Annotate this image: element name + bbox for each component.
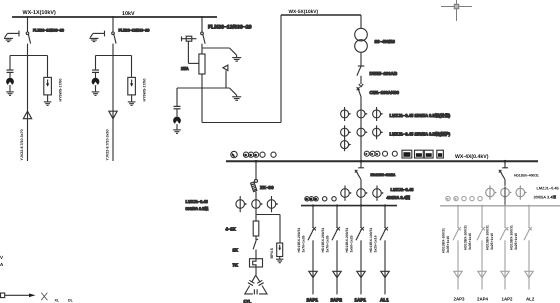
svg-text:DL: DL — [68, 298, 74, 302]
capacitor C3 tie — [174, 88, 181, 117]
legend arrow — [5, 294, 36, 298]
label arrester bay2 — [143, 79, 147, 102]
label arrester bay1 — [59, 79, 63, 102]
svg-text:2AP2: 2AP2 — [331, 298, 343, 303]
CT cap a — [236, 196, 247, 212]
wire bay1 drop from bus — [27, 17, 29, 32]
capacitor C1 coupling — [7, 70, 14, 78]
svg-text:DW15−200A/3: DW15−200A/3 — [370, 71, 398, 76]
ground bay1 counter — [6, 92, 14, 96]
CT TA1a — [341, 107, 352, 121]
legend box — [1, 293, 5, 298]
svg-text:WX-1X(10kV): WX-1X(10kV) — [23, 10, 56, 16]
drawing crosshair marker — [441, 0, 472, 21]
capacitor C2 coupling — [92, 70, 99, 78]
CT TA2c — [373, 125, 384, 139]
discharge counter tie — [173, 117, 181, 130]
junction transformer on bus WX-4X — [360, 160, 363, 163]
label QS5 HD13BX-400/31 — [371, 173, 396, 177]
ground bay2 arrester — [128, 102, 136, 106]
label grey feeder3 name — [502, 297, 514, 302]
svg-text:LMZJ1−0.45: LMZJ1−0.45 — [186, 199, 209, 204]
wire bay1 left branch — [9, 56, 11, 70]
meter PA1 — [364, 151, 369, 156]
wire delta to lower branch — [225, 71, 227, 89]
label QF1 CM1-100A/400 — [370, 90, 400, 95]
meter r4 grey — [470, 196, 474, 200]
svg-text:LMZJ1−0.45 150/5A 0.5级(保护): LMZJ1−0.45 150/5A 0.5级(保护) — [390, 131, 451, 136]
breaker QF1 — [357, 84, 364, 161]
fuse FU cap bay — [253, 221, 259, 236]
junction grey feeder 458 — [457, 205, 459, 207]
ground bay1 arrester — [44, 102, 52, 106]
label bus WX-4X — [455, 154, 489, 160]
svg-text:7K: 7K — [233, 263, 238, 268]
svg-text:3x70+1x35: 3x70+1x35 — [326, 235, 330, 252]
label T1 S9-400/10 — [375, 39, 396, 44]
wire bay1 right branch — [47, 56, 49, 78]
meter PV1 — [383, 151, 388, 156]
legend X symbol — [41, 293, 47, 301]
label capacitor bank — [244, 299, 252, 303]
sub-bus black feeder section — [301, 205, 397, 207]
legend edge mark A — [0, 255, 3, 260]
feeder 1 switch — [308, 206, 316, 295]
cable head feeder4 — [381, 271, 389, 277]
svg-text:300/5A 0.5级: 300/5A 0.5级 — [186, 206, 209, 211]
svg-text:LMZJ1−0.45 150/5A 0.5级(计量): LMZJ1−0.45 150/5A 0.5级(计量) — [390, 113, 451, 118]
surge arrester F2 — [128, 77, 136, 101]
fuse FU1 tie — [199, 54, 205, 74]
operating mechanism linkage — [182, 36, 199, 63]
label CT TA4 line2 — [387, 195, 410, 200]
label feeder2 2AP2 — [331, 298, 343, 303]
label 7K — [233, 263, 238, 268]
label grey feeder1 name — [454, 297, 466, 302]
earthing interlock bay1 — [5, 31, 19, 38]
meter f1 — [305, 197, 309, 201]
label 1RD — [226, 227, 236, 232]
svg-text:4−1K: 4−1K — [226, 227, 236, 232]
svg-text:2AP4: 2AP4 — [477, 297, 489, 302]
wire LV main drop — [360, 161, 362, 168]
svg-text:HD13BX-100/31: HD13BX-100/31 — [464, 225, 468, 250]
svg-text:HD13BX−400/31: HD13BX−400/31 — [514, 174, 539, 178]
label QS1 FLN36-12/630-20 — [33, 29, 64, 33]
label bus WX-1X — [23, 10, 56, 16]
svg-text:3x35+1x16: 3x35+1x16 — [468, 233, 472, 250]
label cable bay2 — [105, 129, 109, 160]
wire branch to arrester cap — [256, 215, 280, 244]
meter f3 — [314, 197, 318, 201]
svg-text:AL2: AL2 — [526, 297, 535, 302]
CT TA5b grey — [501, 185, 512, 199]
label CT TA4 line1 — [391, 187, 415, 192]
svg-text:3x25+1x16: 3x25+1x16 — [374, 235, 378, 252]
label feeder3 spec — [345, 228, 354, 253]
wire cap bay drop — [255, 161, 257, 179]
svg-text:HD13BX-100/31: HD13BX-100/31 — [442, 228, 446, 253]
svg-text:LMZJ1−0.45: LMZJ1−0.45 — [537, 186, 560, 191]
discharge counter bay1 — [6, 78, 14, 92]
CT TA5c grey — [516, 185, 527, 199]
bus WX-1X 10kV — [12, 16, 217, 18]
cable head feeder1 — [309, 271, 317, 277]
svg-text:3x35+1x16: 3x35+1x16 — [446, 236, 450, 253]
cable head bay2 (down) — [109, 111, 117, 119]
svg-text:2AP1: 2AP1 — [307, 298, 319, 303]
svg-text:YJV22-8.7/10-3x50: YJV22-8.7/10-3x50 — [105, 129, 109, 160]
ground bay2 interlock — [90, 38, 99, 41]
label QS4 DW15-200A/3 — [370, 71, 398, 76]
wire tie main down and across to bus WX-5X — [202, 15, 281, 123]
label cable bay1 — [20, 129, 24, 160]
junction tie on bus1 — [201, 16, 203, 18]
label feeder1 2AP1 — [307, 298, 319, 303]
meter cap1 — [243, 152, 248, 157]
meter PA2 — [370, 151, 375, 156]
fuse switch isolating cap bay — [251, 179, 258, 191]
svg-text:2AP3: 2AP3 — [454, 297, 466, 302]
switch QS6 HD13BX right — [499, 168, 508, 187]
label feeder3 1AP1 — [355, 298, 367, 303]
transformer T1 — [355, 28, 368, 52]
svg-text:FLN36−12/630−20: FLN36−12/630−20 — [208, 24, 252, 30]
svg-text:1AP2: 1AP2 — [502, 297, 514, 302]
label feeder4 spec — [369, 228, 378, 253]
load switch QS1 FLN36 — [26, 32, 30, 56]
wire tie bay drop from bus — [201, 17, 203, 32]
legend edge mark B — [0, 262, 4, 267]
energy meter PJ1 — [402, 150, 412, 158]
meter f4 — [323, 197, 327, 201]
disconnector QS4 — [357, 66, 365, 84]
label QS2 FLN36-12/630-20 — [119, 29, 150, 33]
ground bay1 interlock — [4, 38, 13, 41]
cable head feeder3 — [357, 271, 365, 277]
label grey feeder4 name — [526, 297, 535, 302]
label feeder2 spec — [321, 228, 330, 253]
junction bay2 on bus1 — [112, 16, 114, 18]
wire earthing switch 2 branch — [202, 87, 230, 89]
meter PA3 — [375, 151, 380, 156]
svg-text:HD13BX-100/31: HD13BX-100/31 — [510, 225, 514, 250]
load switch QS3 FLN36 — [201, 32, 205, 54]
label QS6 HD13BX-400/31 — [514, 174, 539, 178]
earthing switch ES2 — [230, 88, 237, 96]
CT TA2b — [357, 128, 368, 136]
label grey feeder2 name — [477, 297, 489, 302]
svg-text:AL1: AL1 — [380, 298, 389, 303]
CT TA4c — [373, 185, 384, 200]
legend tiny text 1 — [55, 298, 60, 302]
bus WX-4X 0.4kV main — [226, 160, 538, 162]
contactor 7K — [250, 259, 263, 267]
svg-text:WX-4X(0.4kV): WX-4X(0.4kV) — [455, 154, 489, 160]
CT cap b — [252, 200, 263, 209]
earthing switch ES1 — [230, 48, 237, 57]
wire bay2 left branch — [95, 56, 97, 70]
switch QS5 HD13BX — [355, 168, 364, 206]
CT cap c — [267, 196, 278, 212]
cable head bay1 (up) — [23, 111, 31, 119]
ground ES2 — [232, 97, 241, 101]
CT TA1b — [357, 110, 368, 118]
junction bay1 on bus1 — [27, 16, 29, 18]
junction feeder3 — [360, 204, 362, 206]
cable head feeder2 — [333, 271, 341, 277]
junction feeder2 — [336, 204, 338, 206]
wire bay2 tee — [96, 55, 132, 57]
CT TA4a — [341, 185, 352, 200]
label grey feeder2 spec — [464, 225, 473, 250]
svg-text:HD13BX-200/31: HD13BX-200/31 — [297, 228, 301, 253]
svg-text:HD13BX-100/31: HD13BX-100/31 — [369, 228, 373, 253]
svg-text:10kV: 10kV — [122, 11, 135, 17]
junction capacitor bay on bus WX-4X — [255, 160, 258, 163]
CT TA3 — [341, 139, 352, 152]
junction grey feeder 529 — [528, 205, 530, 207]
CT TA4b — [357, 189, 368, 198]
surge arrester F1 — [44, 77, 52, 101]
label grey feeder3 spec — [486, 225, 495, 250]
junction grey feeder 505.5 — [504, 205, 506, 207]
grey feeder 4 — [524, 206, 533, 290]
label 10kV — [122, 11, 135, 17]
label CT TA5 line2 — [534, 194, 557, 199]
load switch QS2 FLN36 — [112, 32, 116, 56]
label grey feeder4 spec — [510, 225, 519, 250]
junction feeder4 — [384, 204, 386, 206]
svg-text:S9−400/10: S9−400/10 — [375, 39, 396, 44]
legend tiny text 2 — [68, 298, 74, 302]
ground arrester cap bank — [276, 259, 283, 263]
svg-text:HY5WS-17/50: HY5WS-17/50 — [59, 79, 63, 102]
wire transformer to switch — [360, 52, 362, 66]
discharge counter bay2 — [92, 78, 100, 92]
label 1K — [233, 248, 238, 253]
label grey feeder1 spec black — [442, 228, 451, 253]
svg-text:BP4.5: BP4.5 — [270, 248, 274, 258]
capacitor bank delta — [245, 275, 267, 294]
meter r1 grey — [446, 196, 450, 200]
feeder 2 switch — [332, 206, 340, 295]
svg-text:3x25+1x16: 3x25+1x16 — [514, 233, 518, 250]
meter cap2 — [248, 152, 253, 157]
svg-text:LMZJ1−0.45: LMZJ1−0.45 — [391, 187, 415, 192]
svg-text:FLN36−12/630−20: FLN36−12/630−20 — [119, 29, 150, 33]
wire bay2 right branch — [131, 56, 133, 78]
svg-text:3x50+1x25: 3x50+1x25 — [350, 235, 354, 252]
junction grey feeder 482 — [481, 205, 483, 207]
wire bay2 main down — [112, 56, 114, 162]
svg-text:YJV22-8.7/10-3x70: YJV22-8.7/10-3x70 — [20, 129, 24, 160]
svg-text:300/5A 3.4圈: 300/5A 3.4圈 — [534, 194, 557, 199]
wire bay1 main down — [27, 56, 29, 162]
junction feeder1 — [312, 204, 314, 206]
meter f2 — [309, 197, 313, 201]
wire fuse to switch — [255, 236, 257, 241]
feeder 3 switch — [356, 206, 364, 295]
wire bay2 drop from bus — [112, 17, 114, 32]
wire fuse switch to CT — [255, 192, 257, 221]
svg-text:3x70+1x35: 3x70+1x35 — [302, 235, 306, 252]
switch 1K — [253, 239, 258, 259]
CT TA5a grey — [486, 185, 497, 199]
grey feeder 3 — [500, 206, 509, 290]
label ZK-G9 — [260, 185, 274, 190]
svg-text:HD13BX-100/31: HD13BX-100/31 — [486, 225, 490, 250]
meter cap4 — [260, 152, 265, 157]
svg-text:1YL: 1YL — [244, 299, 252, 303]
label CT row1 — [390, 113, 451, 118]
label BP4.5 — [270, 248, 274, 258]
svg-text:3x25+1x16: 3x25+1x16 — [490, 233, 494, 250]
junction right section on bus WX-4X — [504, 160, 507, 163]
svg-text:CM1−100A/400: CM1−100A/400 — [370, 90, 400, 95]
wire bay1 tee — [10, 55, 48, 57]
ground ES1 — [232, 58, 241, 62]
meter r3 grey — [462, 196, 466, 200]
energy meter PJ3 — [424, 150, 433, 158]
earthing interlock bay2 — [90, 31, 104, 38]
CT TA2a — [341, 125, 352, 139]
energy meter PJ4 — [437, 150, 444, 158]
bus WX-5X 10kV — [281, 14, 361, 16]
svg-text:ZK−G9: ZK−G9 — [260, 185, 274, 190]
meter cap3 — [253, 152, 258, 157]
meter r2 grey — [454, 196, 458, 200]
wire contactor to capacitor bank — [255, 267, 257, 275]
meter PV2 — [392, 151, 397, 156]
svg-text:HD13BX-200/31: HD13BX-200/31 — [345, 228, 349, 253]
svg-text:XL: XL — [55, 298, 60, 302]
label fuse 25A — [181, 66, 189, 71]
svg-text:25A: 25A — [181, 66, 189, 71]
meter r5 grey — [478, 196, 482, 200]
label CT row2 — [390, 131, 451, 136]
label QS3 FLN36-12/630-20 — [208, 24, 252, 30]
wire capacitor branch horizontal — [177, 87, 202, 89]
surge arrester cap bank — [277, 243, 283, 259]
grey feeder 1 — [453, 206, 462, 290]
svg-text:HD13BX−400/31: HD13BX−400/31 — [371, 173, 396, 177]
ground tie counter — [173, 130, 181, 134]
meter f5 — [332, 197, 336, 201]
feeder 4 switch — [380, 206, 388, 295]
label CT cap line2 — [186, 206, 209, 211]
svg-text:HD13BX-200/31: HD13BX-200/31 — [321, 228, 325, 253]
wire right section drop — [504, 161, 506, 168]
svg-text:V: V — [0, 255, 3, 260]
meter cap5 — [271, 152, 276, 157]
wire earthing switch 1 branch — [202, 47, 230, 49]
svg-text:400/5A 3.4圈: 400/5A 3.4圈 — [387, 195, 410, 200]
sub-bus grey right section — [440, 205, 560, 207]
delta winding symbol — [223, 65, 228, 70]
CT TA1c — [373, 107, 384, 121]
svg-text:WX-5X(10kV): WX-5X(10kV) — [289, 9, 319, 15]
svg-text:HY5WS-17/50: HY5WS-17/50 — [143, 79, 147, 102]
wire right main to sub-bus grey — [504, 187, 506, 206]
meter big PA cap bay — [231, 151, 237, 157]
label feeder1 spec — [297, 228, 306, 253]
wire bus WX-5X to transformer — [360, 15, 362, 28]
energy meter PJ2 — [415, 150, 424, 158]
label feeder4 AL1 — [380, 298, 389, 303]
grey feeder 2 — [477, 206, 486, 290]
ground bay2 counter — [92, 92, 100, 96]
label bus WX-5X — [289, 9, 319, 15]
svg-text:1AP1: 1AP1 — [355, 298, 367, 303]
label CT TA5 line1 — [537, 186, 560, 191]
label CT cap line1 — [186, 199, 209, 204]
svg-text:1K: 1K — [233, 248, 238, 253]
svg-text:FLN36−12/630−20: FLN36−12/630−20 — [33, 29, 64, 33]
